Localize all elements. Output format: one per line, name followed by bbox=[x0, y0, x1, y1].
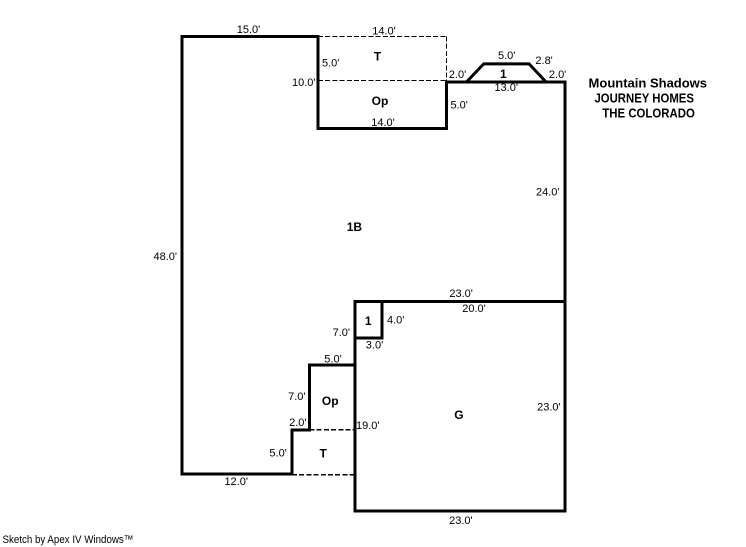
dashed: T upper area right bbox=[445, 37, 447, 81]
svg-text:23.0': 23.0' bbox=[449, 515, 473, 527]
dashed: T upper area bottom bbox=[318, 80, 446, 82]
dashed: T lower area bottom bbox=[292, 474, 355, 476]
svg-text:20.0': 20.0' bbox=[462, 303, 486, 315]
svg-text:5.0': 5.0' bbox=[269, 448, 286, 460]
svg-text:5.0': 5.0' bbox=[324, 354, 341, 366]
svg-text:23.0': 23.0' bbox=[449, 288, 473, 300]
svg-text:1: 1 bbox=[500, 67, 507, 81]
svg-text:23.0': 23.0' bbox=[537, 402, 561, 414]
svg-text:5.0': 5.0' bbox=[322, 58, 339, 70]
svg-text:G: G bbox=[454, 408, 463, 422]
svg-text:T: T bbox=[374, 50, 382, 64]
svg-text:12.0': 12.0' bbox=[224, 476, 248, 488]
svg-text:Op: Op bbox=[372, 94, 389, 108]
dashed: Op lower area bottom bbox=[310, 429, 356, 431]
svg-text:14.0': 14.0' bbox=[372, 26, 396, 38]
svg-text:1: 1 bbox=[365, 314, 372, 328]
wall: garage G box bbox=[355, 301, 565, 511]
svg-text:19.0': 19.0' bbox=[356, 420, 380, 432]
svg-text:Op: Op bbox=[322, 394, 339, 408]
svg-text:Sketch by Apex IV Windows™: Sketch by Apex IV Windows™ bbox=[3, 534, 134, 546]
wall: trapezoid area 1 (top right) bbox=[467, 64, 547, 82]
svg-text:14.0': 14.0' bbox=[371, 117, 395, 129]
svg-text:JOURNEY HOMES: JOURNEY HOMES bbox=[594, 92, 694, 106]
svg-text:15.0': 15.0' bbox=[237, 24, 261, 36]
svg-text:Mountain Shadows: Mountain Shadows bbox=[589, 76, 708, 91]
svg-text:2.0': 2.0' bbox=[449, 69, 466, 81]
svg-text:24.0': 24.0' bbox=[536, 187, 560, 199]
svg-text:T: T bbox=[320, 447, 328, 461]
svg-text:2.8': 2.8' bbox=[535, 55, 552, 67]
svg-text:7.0': 7.0' bbox=[288, 391, 305, 403]
dashed: T upper area top bbox=[318, 36, 446, 38]
svg-text:3.0': 3.0' bbox=[366, 340, 383, 352]
svg-text:2.0': 2.0' bbox=[549, 69, 566, 81]
svg-text:10.0': 10.0' bbox=[292, 77, 316, 89]
svg-text:THE COLORADO: THE COLORADO bbox=[602, 106, 695, 120]
wall: small box 1 (below 1B bottom) bbox=[355, 301, 382, 338]
svg-text:13.0': 13.0' bbox=[494, 82, 518, 94]
svg-text:48.0': 48.0' bbox=[153, 251, 177, 263]
svg-text:1B: 1B bbox=[347, 220, 363, 234]
svg-text:5.0': 5.0' bbox=[451, 100, 468, 112]
svg-text:2.0': 2.0' bbox=[289, 417, 306, 429]
svg-text:7.0': 7.0' bbox=[333, 327, 350, 339]
svg-text:5.0': 5.0' bbox=[498, 50, 515, 62]
svg-text:4.0': 4.0' bbox=[387, 315, 404, 327]
wall: main 1B perimeter bbox=[182, 37, 565, 474]
